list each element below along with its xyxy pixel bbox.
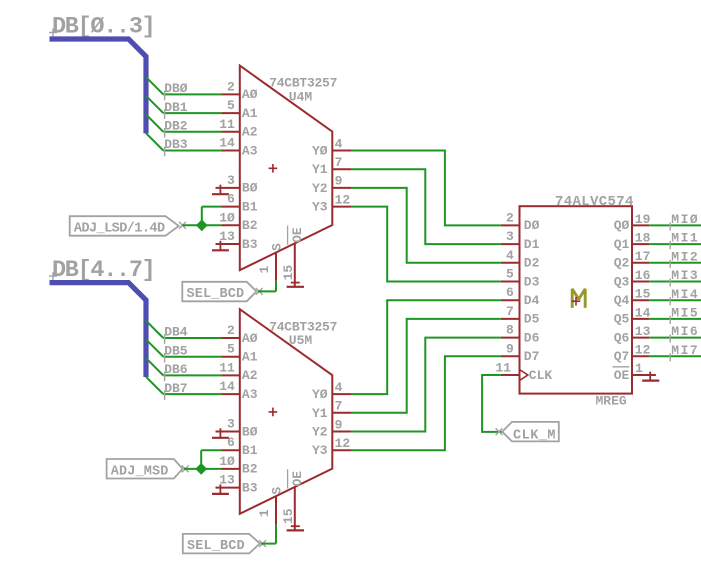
pin A2 (11) of U4M [221,131,240,133]
svg-text:Y1: Y1 [312,406,328,421]
svg-text:7: 7 [335,155,343,170]
svg-text:Y3: Y3 [312,200,328,215]
net label flag ADJ_LSD/1.4D [70,216,179,236]
svg-text:DB6: DB6 [164,362,188,377]
svg-text:11: 11 [219,117,235,132]
svg-text:A1: A1 [242,106,258,121]
svg-text:6: 6 [227,192,235,207]
ground symbol at pin OE of U5M [291,525,300,527]
svg-text:YØ: YØ [312,387,328,402]
pin Q2 (17) of MREG [632,262,649,264]
svg-text:15: 15 [281,265,296,281]
svg-text:CLK: CLK [529,368,553,383]
svg-text:8: 8 [506,323,514,338]
svg-text:Y2: Y2 [312,181,328,196]
bus DB[0..3] [50,39,147,133]
svg-text:B3: B3 [242,237,258,252]
pin B2 (10) of U5M [221,468,240,470]
svg-text:DB5: DB5 [164,343,188,358]
svg-text:1Ø: 1Ø [219,210,235,225]
svg-text:18: 18 [635,231,651,246]
pin D2 (4) of MREG [501,262,520,264]
wire SEL_BCD to S pin of U5M [261,543,276,545]
svg-text:9: 9 [506,341,514,356]
svg-text:S: S [269,487,284,495]
wire Y2 of U4M to D2 [351,188,501,263]
svg-text:12: 12 [635,343,651,358]
pin Q4 (15) of MREG [632,299,649,301]
svg-text:11: 11 [495,361,511,376]
svg-text:D2: D2 [524,256,540,271]
svg-text:9: 9 [335,174,343,189]
svg-text:AØ: AØ [242,331,258,346]
wire ADJ_MSD to B1 [200,450,202,469]
svg-text:A2: A2 [242,368,258,383]
svg-text:Q4: Q4 [614,293,630,308]
svg-text:QØ: QØ [614,218,630,233]
svg-text:2: 2 [227,79,235,94]
pin B2 (10) of U4M [221,224,240,226]
net label flag CLK_M [502,422,559,442]
svg-text:D4: D4 [524,293,540,308]
svg-text:4: 4 [335,380,343,395]
svg-text:Q3: Q3 [614,274,630,289]
pin Y1 (7) of U5M [332,412,351,414]
pin A1 (5) of U4M [221,112,240,114]
pin Q0 (19) of MREG [632,224,649,226]
pin A0 (2) of U4M [221,93,240,95]
svg-text:SEL_BCD: SEL_BCD [187,287,245,302]
wire MI4 with net label [649,299,701,301]
svg-text:13: 13 [219,229,235,244]
pin A3 (14) of U4M [221,150,240,152]
wire DB3 with net label [146,133,163,150]
svg-text:19: 19 [635,212,651,227]
wire MI6 with net label [649,337,701,339]
svg-text:3: 3 [227,417,235,432]
wire MI5 with net label [649,318,701,320]
svg-text:Q5: Q5 [614,312,630,327]
svg-text:D1: D1 [524,237,540,252]
svg-text:DB2: DB2 [164,119,188,134]
pin OE (1) of MREG [632,374,656,376]
svg-text:5: 5 [227,342,235,357]
pin Q6 (13) of MREG [632,337,649,339]
wire DB4 with net label [146,321,163,338]
pin Y1 (7) of U4M [332,168,351,170]
svg-text:Q1: Q1 [614,237,630,252]
pin D3 (5) of MREG [501,281,520,283]
svg-text:B2: B2 [242,462,258,477]
bus DB[4..7] [50,283,147,377]
svg-text:B3: B3 [242,480,258,495]
svg-text:OE: OE [290,227,305,243]
pin OE (15) of U5M [294,487,296,530]
svg-text:SEL_BCD: SEL_BCD [187,539,245,554]
wire MI2 with net label [649,262,701,264]
ground symbol at pin B0 of U5M [219,428,221,438]
svg-text:B2: B2 [242,218,258,233]
svg-text:15: 15 [635,287,651,302]
svg-text:2: 2 [506,210,514,225]
pin D1 (3) of MREG [501,243,520,245]
svg-text:DBØ: DBØ [164,81,188,96]
svg-text:D3: D3 [524,274,540,289]
ground symbol at pin B3 of U5M [219,484,221,494]
svg-text:12: 12 [335,436,351,451]
svg-text:Y2: Y2 [312,425,328,440]
wire MI3 with net label [649,281,701,283]
svg-text:A3: A3 [242,143,258,158]
svg-text:74ALVC574: 74ALVC574 [555,194,634,210]
svg-text:D5: D5 [524,312,540,327]
pin B0 (3) of U5M [216,431,240,433]
ground symbol at pin B3 of U4M [219,241,221,251]
svg-text:B1: B1 [242,443,258,458]
pin A0 (2) of U5M [221,337,240,339]
pin S (1) of U4M [275,253,277,281]
wire DB7 with net label [146,377,163,394]
pin B3 (13) of U5M [216,487,240,489]
pin Y2 (9) of U4M [332,187,351,189]
svg-text:15: 15 [281,508,296,524]
pin S (1) of U5M [275,496,277,524]
wire Y0 of U4M to D0 [351,151,501,226]
svg-text:14: 14 [635,305,651,320]
svg-text:OE: OE [614,368,630,383]
pin Y2 (9) of U5M [332,431,351,433]
svg-text:MI6: MI6 [671,324,699,339]
wire MI0 with net label [649,224,701,226]
pin B1 (6) of U5M [221,449,240,451]
svg-text:Q6: Q6 [614,330,630,345]
svg-text:MI3: MI3 [671,268,699,283]
wire Y0 of U5M to D4 [351,300,501,394]
junction at B2 net [197,220,207,230]
svg-text:6: 6 [506,285,514,300]
ground symbol at pin OE of U4M [291,282,300,284]
origin cross of MREG [572,297,581,306]
svg-text:MI1: MI1 [671,231,699,246]
pin A1 (5) of U5M [221,356,240,358]
svg-text:Q7: Q7 [614,349,630,364]
net label flag ADJ_MSD [107,459,183,479]
wire DB5 with net label [146,339,163,356]
wire DB0 with net label [146,77,163,94]
pin Q7 (12) of MREG [632,355,649,357]
svg-text:3: 3 [506,229,514,244]
pin B3 (13) of U4M [216,243,240,245]
pin A2 (11) of U5M [221,374,240,376]
pin D7 (9) of MREG [501,355,520,357]
svg-text:OE: OE [290,471,305,487]
wire SEL_BCD to S pin of U4M [258,290,276,292]
pin D4 (6) of MREG [501,299,520,301]
svg-text:A3: A3 [242,387,258,402]
wire Y3 of U4M to D3 [351,207,501,282]
svg-text:MIØ: MIØ [671,212,699,227]
svg-text:A2: A2 [242,125,258,140]
svg-text:Y1: Y1 [312,162,328,177]
svg-text:7: 7 [506,304,514,319]
svg-text:BØ: BØ [242,424,258,439]
pin Y0 (4) of U4M [332,150,351,152]
pin Y0 (4) of U5M [332,393,351,395]
svg-text:13: 13 [219,473,235,488]
wire DB1 with net label [146,96,163,113]
svg-text:5: 5 [227,98,235,113]
origin cross of U4M [269,164,278,173]
svg-text:5: 5 [506,267,514,282]
pin Y3 (12) of U5M [332,449,351,451]
pin B0 (3) of U4M [216,187,240,189]
svg-text:12: 12 [335,192,351,207]
pin CLK (11) of MREG [501,374,520,376]
wire DB6 with net label [146,358,163,375]
svg-text:4: 4 [506,248,514,263]
svg-text:DB1: DB1 [164,100,188,115]
pin Q1 (18) of MREG [632,243,649,245]
pin D0 (2) of MREG [501,224,520,226]
svg-text:ADJ_MSD: ADJ_MSD [111,464,169,479]
svg-text:BØ: BØ [242,181,258,196]
ground symbol at pin B0 of U4M [219,185,221,195]
svg-text:A1: A1 [242,350,258,365]
net label flag SEL_BCD (upper) [182,282,256,302]
svg-text:11: 11 [219,360,235,375]
mux IC U4M outline [240,66,332,271]
register IC MREG outline [520,206,633,393]
svg-text:13: 13 [635,324,651,339]
svg-text:YØ: YØ [312,144,328,159]
wire MI1 with net label [649,243,701,245]
svg-text:9: 9 [335,417,343,432]
svg-text:4: 4 [335,136,343,151]
svg-text:DØ: DØ [524,218,540,233]
svg-text:16: 16 [635,268,651,283]
pin B1 (6) of U4M [221,206,240,208]
svg-text:14: 14 [219,379,235,394]
mode marker M (olive) [572,289,585,308]
svg-text:1: 1 [635,361,643,376]
svg-text:1: 1 [257,509,272,517]
wire ADJ_LSD to B1 [201,207,203,226]
svg-text:B1: B1 [242,199,258,214]
svg-text:ADJ_LSD/1.4D: ADJ_LSD/1.4D [74,222,165,237]
svg-text:17: 17 [635,249,651,264]
wire DB2 with net label [146,115,163,132]
wire Y1 of U5M to D5 [351,319,501,413]
svg-text:MI7: MI7 [671,343,699,358]
svg-text:MI4: MI4 [671,287,699,302]
svg-text:DB3: DB3 [164,137,188,152]
svg-text:U5M: U5M [289,333,313,348]
svg-text:D7: D7 [524,349,540,364]
pin D6 (8) of MREG [501,337,520,339]
svg-text:DB4: DB4 [164,325,188,340]
origin cross of U5M [269,408,278,417]
ground symbol at pin OE of MREG [649,372,651,381]
svg-text:1Ø: 1Ø [219,454,235,469]
pin Q3 (16) of MREG [632,281,649,283]
svg-text:Y3: Y3 [312,443,328,458]
wire Y3 of U5M to D7 [351,356,501,450]
pin Y3 (12) of U4M [332,206,351,208]
svg-text:7: 7 [335,399,343,414]
svg-text:MI2: MI2 [671,249,699,264]
svg-text:CLK_M: CLK_M [513,428,556,443]
pin OE (15) of U4M [294,243,296,286]
svg-text:AØ: AØ [242,87,258,102]
svg-text:U4M: U4M [289,89,313,104]
junction at B2 net of U5M [196,464,206,474]
wire Y2 of U5M to D6 [351,338,501,432]
svg-text:2: 2 [227,323,235,338]
wire Y1 of U4M to D1 [351,169,501,244]
svg-text:S: S [269,243,284,251]
svg-text:Q2: Q2 [614,256,630,271]
mux IC U5M outline [240,309,332,514]
svg-text:3: 3 [227,173,235,188]
svg-text:D6: D6 [524,330,540,345]
net label flag SEL_BCD (lower) [183,534,260,554]
svg-text:MI5: MI5 [671,306,699,321]
wire MI7 with net label [649,355,701,357]
svg-text:14: 14 [219,136,235,151]
wire ADJ_MSD to B2 [184,468,201,470]
svg-text:1: 1 [257,266,272,274]
pin Q5 (14) of MREG [632,318,649,320]
wire CLK_M to CLK pin [482,375,502,432]
svg-text:6: 6 [227,435,235,450]
pin D5 (7) of MREG [501,318,520,320]
svg-text:MREG: MREG [596,394,627,409]
pin A3 (14) of U5M [221,393,240,395]
svg-text:DB7: DB7 [164,381,187,396]
wire ADJ_LSD to B2 [183,224,202,226]
